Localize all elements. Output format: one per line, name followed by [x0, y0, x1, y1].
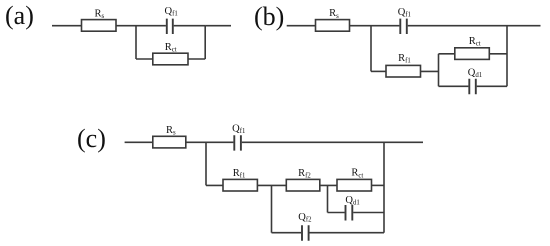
wire c Qf2 bottom branch left: [272, 232, 302, 234]
wire c right branch vertical: [383, 142, 385, 232]
wire b Rf1 branch left: [371, 70, 386, 72]
wire a right lead: [205, 25, 231, 27]
svg-text:(c): (c): [77, 124, 106, 153]
wire c Rct to right vertical: [372, 184, 385, 186]
wire c Rs to Qf1: [186, 141, 234, 143]
svg-text:Qf2: Qf2: [298, 212, 312, 224]
svg-text:Rs: Rs: [95, 8, 105, 20]
svg-text:Rf1: Rf1: [398, 53, 411, 65]
resistor Rs (c): [153, 136, 186, 148]
wire c lower branch vertical: [271, 185, 273, 232]
resistor Rs (b): [316, 20, 350, 32]
wire a top branch left: [136, 25, 166, 27]
resistor Rf1 (b): [386, 65, 421, 77]
CPE Qd1 (c): [346, 205, 353, 221]
CPE Qf1 (b): [400, 19, 407, 34]
resistor Rf2 (c): [286, 179, 320, 191]
resistor Rf1 (c): [223, 179, 257, 191]
CPE Qf2 (c): [302, 225, 309, 241]
svg-text:Rct: Rct: [165, 42, 177, 54]
wire b Qd1 sub-branch right: [477, 85, 507, 87]
wire c left branch vertical: [205, 142, 207, 185]
svg-text:Rf1: Rf1: [233, 168, 246, 180]
wire b left lead: [287, 25, 316, 27]
wire b right branch vertical: [506, 26, 508, 87]
wire b left branch vertical: [370, 26, 372, 72]
wire c left lead: [125, 141, 153, 143]
resistor Rs (a): [82, 20, 117, 32]
wire c Rf1 to Rf2: [257, 184, 286, 186]
svg-text:Qf1: Qf1: [398, 7, 411, 19]
svg-text:Rf2: Rf2: [298, 168, 311, 180]
resistor Rct (c): [337, 179, 372, 191]
wire c Qd1 sub-branch right: [353, 212, 384, 214]
resistor Rct (b): [455, 48, 490, 60]
svg-text:Rct: Rct: [469, 36, 481, 48]
wire b Qd1 sub-branch left: [439, 85, 469, 87]
svg-text:Qd1: Qd1: [468, 67, 482, 79]
wire a left branch vertical: [135, 26, 137, 59]
wire a top branch right: [174, 25, 206, 27]
svg-text:Rs: Rs: [166, 125, 176, 137]
wire c Qf2 bottom branch right: [310, 232, 385, 234]
svg-text:Qf1: Qf1: [165, 6, 178, 18]
svg-text:Qf1: Qf1: [232, 124, 245, 136]
wire c Rf2 to Rct: [320, 184, 337, 186]
wire c Qd1 branch vertical: [327, 185, 329, 212]
svg-text:(a): (a): [5, 1, 34, 30]
resistor Rct (a): [153, 53, 188, 65]
CPE Qf1 (c): [234, 135, 241, 150]
svg-text:Rct: Rct: [351, 168, 363, 180]
CPE Qd1 (b): [469, 79, 476, 95]
wire c Rf1 branch left: [206, 184, 223, 186]
wire a Rs to node: [116, 25, 136, 27]
svg-text:(b): (b): [254, 2, 284, 31]
wire a bottom branch: [136, 58, 205, 60]
wire a right branch vertical: [204, 26, 206, 59]
wire b inner branch vertical: [438, 54, 440, 87]
svg-text:Qd1: Qd1: [345, 195, 359, 207]
wire b Rf1 to inner node: [421, 70, 439, 72]
CPE Qf1 (a): [167, 19, 173, 34]
svg-text:Rs: Rs: [329, 8, 339, 20]
wire c main right: [242, 141, 423, 143]
wire b main right: [408, 25, 541, 27]
wire b Rct sub-branch right: [489, 53, 507, 55]
wire b Rs to Qf1: [350, 25, 400, 27]
wire a left lead: [52, 25, 82, 27]
wire c Qd1 sub-branch left: [328, 212, 345, 214]
wire b Rct sub-branch left: [439, 53, 455, 55]
